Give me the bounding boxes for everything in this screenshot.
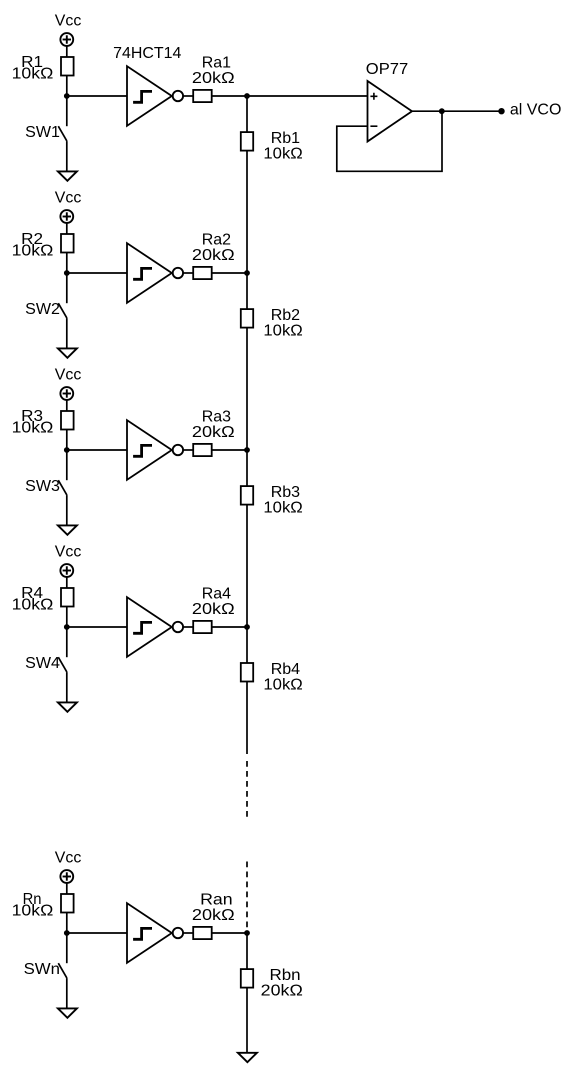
svg-text:10kΩ: 10kΩ (263, 500, 302, 517)
resistor Ra3 20k (192, 409, 235, 456)
node bus row 3 (244, 447, 250, 453)
wire Vcc to resistor (66, 223, 68, 234)
svg-text:20kΩ: 20kΩ (192, 424, 235, 441)
svg-text:Vcc: Vcc (55, 13, 82, 30)
resistor Rb2 10k (241, 307, 303, 340)
svg-text:Rb1: Rb1 (271, 130, 300, 147)
wire inverter to Ra (183, 272, 193, 274)
wire Ra to bus (212, 932, 247, 934)
svg-text:al VCO: al VCO (510, 102, 562, 119)
wire node to inverter input (67, 626, 127, 628)
wire resistor to input node (66, 76, 68, 97)
svg-text:10kΩ: 10kΩ (12, 597, 54, 614)
node bus row 2 (244, 270, 250, 276)
svg-text:10kΩ: 10kΩ (263, 146, 302, 163)
switch SW4 (25, 627, 67, 702)
svg-text:Rb4: Rb4 (271, 661, 300, 678)
resistor Ra2 20k (192, 232, 235, 279)
node input row n (64, 930, 70, 936)
ground (row n switch) (58, 1008, 77, 1017)
resistor Rb1 10k (241, 130, 303, 163)
wire Ra to bus (212, 95, 247, 97)
resistor R1 10k (12, 54, 74, 83)
svg-text:10kΩ: 10kΩ (12, 903, 54, 920)
wire Vcc to resistor (66, 577, 68, 588)
wire inverter to Ra (183, 626, 193, 628)
wire feedback loop output to minus input (337, 111, 442, 171)
svg-text:Rb2: Rb2 (271, 307, 300, 324)
svg-text:10kΩ: 10kΩ (263, 677, 302, 694)
switch SW1 (25, 96, 67, 171)
svg-text:OP77: OP77 (366, 61, 408, 78)
node bus row 1 (244, 93, 250, 99)
resistor Rb3 10k (241, 484, 303, 517)
switch SWn (24, 933, 67, 1008)
svg-text:20kΩ: 20kΩ (261, 983, 303, 1000)
svg-text:Rbn: Rbn (270, 967, 301, 984)
svg-text:10kΩ: 10kΩ (12, 66, 54, 83)
resistor R2 10k (12, 231, 74, 260)
ground (row 2 switch) (58, 348, 77, 357)
resistor Rb4 10k (241, 661, 303, 694)
switch SW2 (25, 273, 67, 348)
wire inverter to Ra (183, 95, 193, 97)
svg-text:Rb3: Rb3 (271, 484, 300, 501)
svg-text:Vcc: Vcc (55, 367, 82, 384)
resistor R3 10k (12, 408, 74, 437)
wire bus node to op-amp + input (247, 95, 368, 97)
resistor Rn 10k (12, 891, 74, 920)
inverter 74HCT14 gate row n (127, 903, 183, 963)
node bus row n (244, 930, 250, 936)
op-amp OP77 (366, 61, 412, 142)
wire inverter to Ra (183, 449, 193, 451)
svg-text:20kΩ: 20kΩ (192, 907, 235, 924)
wire resistor to input node (66, 430, 68, 451)
node input row 3 (64, 447, 70, 453)
wire resistor to input node (66, 607, 68, 628)
svg-text:20kΩ: 20kΩ (192, 70, 235, 87)
ground (row 4 switch) (58, 702, 77, 711)
wire Ra to bus (212, 449, 247, 451)
resistor Ra1 20k (192, 55, 235, 102)
ground (row 1 switch) (58, 171, 77, 180)
resistor Ra4 20k (192, 586, 235, 633)
svg-text:74HCT14: 74HCT14 (113, 45, 181, 62)
resistor Rbn 20k (241, 933, 303, 1000)
power Vcc (row 2) (55, 190, 82, 223)
power Vcc (row 3) (55, 367, 82, 400)
svg-text:Vcc: Vcc (55, 850, 82, 867)
svg-text:10kΩ: 10kΩ (263, 323, 302, 340)
wire Vcc to resistor (66, 46, 68, 57)
wire Ra to bus (212, 272, 247, 274)
wire Ra to bus (212, 626, 247, 628)
wire inverter to Ra (183, 932, 193, 934)
wire bus dashed continuation upper (246, 761, 248, 818)
wire resistor to input node (66, 913, 68, 934)
inverter 74HCT14 gate row 3 (127, 420, 183, 480)
wire Vcc to resistor (66, 400, 68, 411)
svg-text:SWn: SWn (24, 961, 60, 978)
wire node to inverter input (67, 449, 127, 451)
wire node to inverter input (67, 932, 127, 934)
svg-text:10kΩ: 10kΩ (12, 243, 54, 260)
node input row 1 (64, 93, 70, 99)
wire Rbn to ground (246, 988, 248, 1054)
svg-text:Vcc: Vcc (55, 544, 82, 561)
svg-text:SW4: SW4 (25, 655, 60, 672)
wire node to inverter input (67, 272, 127, 274)
svg-text:20kΩ: 20kΩ (192, 601, 235, 618)
svg-text:20kΩ: 20kΩ (192, 247, 235, 264)
wire resistor to input node (66, 253, 68, 274)
node al VCO terminal (498, 108, 504, 114)
svg-text:10kΩ: 10kΩ (12, 420, 54, 437)
power Vcc (row 1) (55, 13, 82, 46)
svg-text:SW3: SW3 (25, 478, 60, 495)
inverter 74HCT14 gate row 4 (127, 597, 183, 657)
wire op-amp output (412, 110, 502, 112)
node input row 4 (64, 624, 70, 630)
wire Vcc to resistor (66, 883, 68, 894)
node output junction (439, 108, 445, 114)
node bus row 4 (244, 624, 250, 630)
power Vcc (row 4) (55, 544, 82, 577)
svg-text:SW1: SW1 (25, 124, 60, 141)
resistor Ran 20k (192, 892, 235, 939)
wire bus vertical (rows 1-4) (246, 96, 248, 754)
ground bus bottom (238, 1053, 257, 1062)
svg-text:Vcc: Vcc (55, 190, 82, 207)
inverter 74HCT14 gate row 1 (127, 66, 183, 126)
wire bus dashed continuation lower (246, 862, 248, 934)
ground (row 3 switch) (58, 525, 77, 534)
resistor R4 10k (12, 585, 74, 614)
node input row 2 (64, 270, 70, 276)
svg-text:SW2: SW2 (25, 301, 60, 318)
inverter 74HCT14 gate row 2 (127, 243, 183, 303)
power Vcc (row n) (55, 850, 82, 883)
wire node to inverter input (67, 95, 127, 97)
switch SW3 (25, 450, 67, 525)
